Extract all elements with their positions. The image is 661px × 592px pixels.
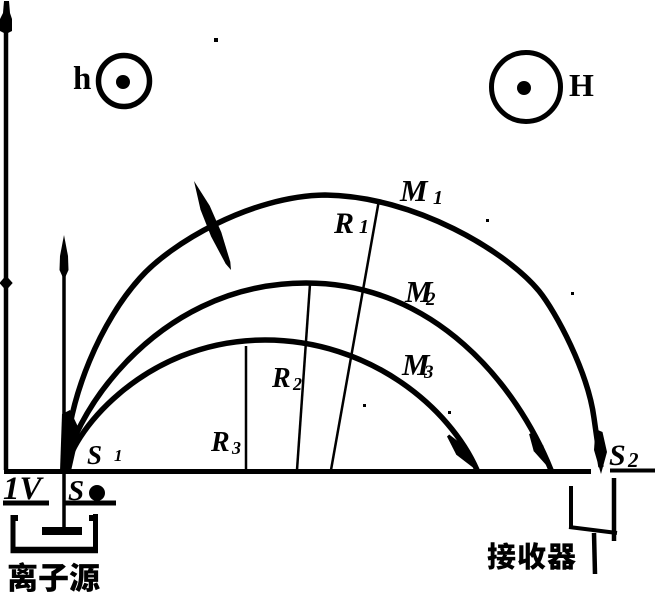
baseline	[4, 469, 591, 474]
speck	[486, 219, 489, 222]
ion source cup bottom	[11, 547, 99, 554]
svg-text:S: S	[609, 439, 626, 472]
1V underline	[3, 501, 49, 506]
svg-text:M: M	[399, 173, 429, 208]
svg-text:R: R	[333, 207, 354, 240]
S0 underline	[65, 501, 116, 506]
axis mid arrowhead	[0, 276, 13, 291]
ion source cup left wall	[11, 515, 16, 553]
speck	[214, 38, 218, 42]
ion beam line	[62, 246, 66, 529]
trajectory arc M2	[66, 283, 551, 470]
velocity selector tick	[194, 181, 231, 270]
speck	[448, 411, 451, 414]
vertical axis	[4, 6, 9, 470]
ion source cup right wall	[93, 514, 98, 553]
svg-text:2: 2	[292, 374, 302, 394]
svg-text:1: 1	[359, 216, 369, 238]
svg-text:2: 2	[425, 289, 436, 310]
ion source cup left wall hook	[11, 515, 18, 521]
radius line R1	[331, 200, 379, 470]
svg-text:3: 3	[423, 362, 434, 383]
field symbol H dot	[517, 81, 531, 95]
trajectory convergence wedge at S1	[60, 410, 80, 471]
electrode bar	[42, 527, 82, 535]
baseline right segment (S2 underline)	[610, 469, 655, 473]
field symbol h circle	[99, 56, 150, 107]
trajectory arc M3	[67, 340, 477, 470]
receiver stem	[594, 533, 595, 574]
text ion source (离)	[9, 562, 37, 592]
receiver right wall	[612, 478, 617, 541]
speck	[571, 292, 574, 295]
arc M2 end arrowhead	[529, 433, 551, 471]
field symbol h dot	[116, 75, 130, 89]
speck	[363, 404, 366, 407]
text receiver (收)	[518, 542, 545, 570]
svg-text:1: 1	[433, 187, 443, 209]
radius line R2	[297, 284, 310, 470]
text receiver (器)	[547, 543, 575, 569]
svg-text:1: 1	[114, 446, 123, 465]
trajectory arc M1	[65, 195, 601, 470]
svg-text:h: h	[73, 61, 91, 97]
text receiver (接)	[487, 542, 515, 570]
field symbol H circle	[492, 53, 561, 122]
axis top arrowhead	[0, 1, 12, 33]
ion beam arrowhead	[60, 235, 69, 280]
svg-text:R: R	[271, 363, 291, 394]
S0 subscript dot	[89, 485, 105, 501]
ion source cup right wall hook	[89, 515, 98, 521]
text ion source (源)	[70, 563, 100, 592]
svg-text:H: H	[569, 67, 594, 103]
text ion source (子)	[39, 564, 67, 592]
svg-text:3: 3	[231, 438, 241, 458]
svg-text:S: S	[87, 440, 102, 470]
svg-text:2: 2	[627, 448, 639, 472]
arc M3 end arrowhead	[447, 435, 478, 472]
receiver bottom	[569, 527, 617, 533]
svg-text:R: R	[210, 427, 230, 458]
radius line R3	[245, 346, 248, 470]
arc M1 end arrowhead	[594, 429, 607, 474]
receiver left wall	[569, 486, 573, 528]
